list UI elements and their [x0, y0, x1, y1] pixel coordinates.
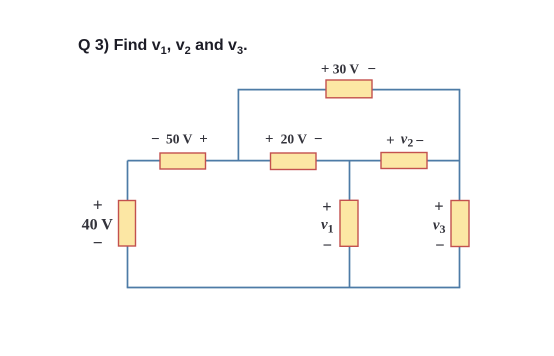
wire: top horizontal bus — [238, 89, 461, 91]
svg-text:+: + — [322, 197, 331, 216]
wire: left vertical (40V branch) — [127, 161, 129, 288]
source: 40 V element (left vertical) — [119, 201, 136, 247]
resistor: 30 V element (top) — [326, 80, 372, 98]
resistor: 20 V element — [271, 153, 317, 170]
svg-text:+: + — [434, 197, 443, 216]
resistor: v3 element (right vertical) — [451, 201, 469, 247]
svg-text:−: − — [93, 232, 103, 252]
resistor: 50 V element — [160, 153, 206, 169]
wire: bottom horizontal bus — [127, 287, 461, 289]
svg-text:−: − — [435, 235, 444, 254]
svg-text:−: − — [323, 235, 332, 254]
title text — [78, 38, 248, 54]
wire: top-left vertical (node between 50V and 20V up to top bus) — [237, 90, 239, 161]
svg-text:v1: v1 — [321, 217, 334, 236]
resistor: v2 element — [381, 153, 427, 169]
svg-text:+20 V−: +20 V− — [265, 132, 322, 148]
resistor: v1 element (middle vertical) — [340, 200, 358, 246]
svg-text:+: + — [93, 195, 103, 215]
svg-text:−50 V+: −50 V+ — [151, 132, 208, 148]
wire: middle horizontal bus — [128, 160, 460, 162]
wire: middle vertical (v1 branch) — [349, 161, 351, 288]
wire: right vertical (top bus down through v3 branch to bottom) — [459, 90, 461, 288]
svg-text:40 V: 40 V — [82, 217, 114, 234]
svg-text:+30 V−: +30 V− — [321, 62, 376, 78]
svg-text:+v2−: +v2− — [386, 132, 424, 150]
svg-text:v3: v3 — [433, 218, 446, 237]
